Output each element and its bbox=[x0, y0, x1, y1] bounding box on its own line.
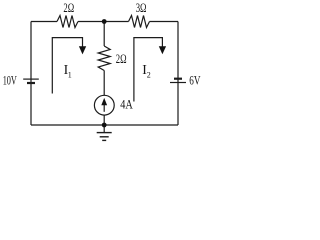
svg-text:10V: 10V bbox=[3, 73, 17, 87]
svg-text:4A: 4A bbox=[120, 98, 133, 112]
svg-text:1: 1 bbox=[68, 70, 72, 79]
svg-text:2: 2 bbox=[147, 70, 151, 79]
svg-text:6V: 6V bbox=[189, 73, 200, 87]
svg-text:2Ω: 2Ω bbox=[116, 52, 127, 66]
svg-text:3Ω: 3Ω bbox=[136, 1, 147, 15]
svg-text:2Ω: 2Ω bbox=[63, 1, 74, 15]
